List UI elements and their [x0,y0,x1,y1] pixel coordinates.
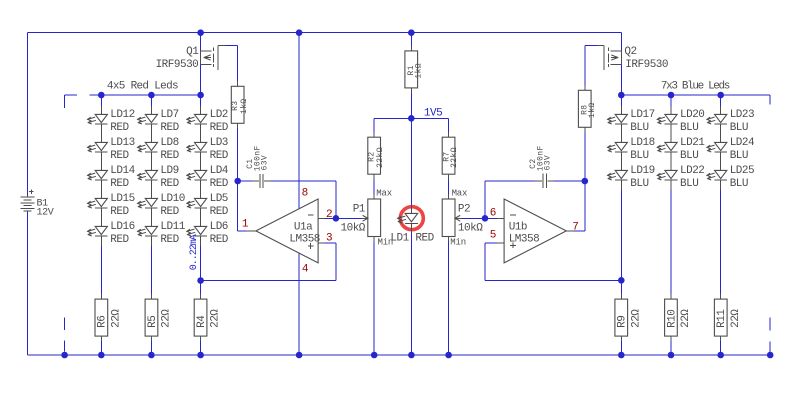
junction blue sense node R9 top [618,277,625,284]
svg-text:1kΩ: 1kΩ [240,98,249,114]
LED LD20 BLU [657,106,704,134]
svg-text:63V: 63V [260,155,269,171]
svg-text:BLU: BLU [680,178,698,190]
svg-text:RED: RED [160,178,179,190]
transistor Q2 IRF9530 (P-MOSFET, mirrored) [597,46,668,72]
junction ground bus at P1 [371,352,378,359]
capacitor C2 100nF 63V [529,145,554,188]
LED LD5 RED [187,190,229,218]
svg-text:BLU: BLU [630,150,648,162]
svg-text:RED: RED [210,150,229,162]
LED LD10 RED [138,190,185,218]
svg-text:6: 6 [490,208,496,220]
junction ground bus at pin4 [296,352,303,359]
op-amp U1b LM358 [497,199,574,263]
wire U1a pin1 output lead [238,230,246,232]
wire blue LED array top bus [621,94,770,96]
LED LD12 RED [88,106,135,134]
wire red column 2 segments [150,95,152,106]
wire red column 3 segments (0..22mA) [200,95,202,106]
svg-text:5: 5 [490,230,496,242]
resistor R8 1kΩ [578,90,596,127]
svg-text:Q1: Q1 [186,46,199,58]
junction red sense node R4 top [197,277,204,284]
svg-text:BLU: BLU [730,122,748,134]
dashed phantom column left (4th red column) top stub [65,94,77,96]
svg-text:LD1: LD1 [390,232,409,244]
junction ground bus at phantom left [61,352,68,359]
junction pin2/P1 wiper [333,215,340,222]
svg-text:R5: R5 [147,316,159,328]
resistor R7 22kΩ [442,137,459,174]
svg-text:1kΩ: 1kΩ [414,63,423,79]
wire top +12V rail [28,32,622,34]
svg-text:LD22: LD22 [680,165,704,177]
LED LD18 BLU [608,134,655,162]
junction red bus col2 [148,92,155,99]
svg-text:LD7: LD7 [160,109,178,121]
junction blue bus col3 [717,92,724,99]
wire bottom ground bus [28,354,771,356]
svg-text:R11: R11 [716,309,728,328]
junction top rail at Q1 [197,29,204,36]
LED LD25 BLU [707,162,754,190]
svg-text:LD19: LD19 [630,165,654,177]
svg-text:RED: RED [110,150,129,162]
LED LD6 RED [187,218,229,246]
svg-text:22Ω: 22Ω [680,309,692,328]
LED LD23 BLU [707,106,754,134]
svg-text:LD3: LD3 [210,137,228,149]
junction pin6/P2 wiper [482,215,489,222]
wire blue column 3 segments [720,95,722,106]
svg-text:RED: RED [160,150,179,162]
wire junction up to C2 left [484,181,486,218]
wire R3 bottom to node A [237,128,239,181]
LED LD14 RED [88,162,136,190]
svg-text:LD16: LD16 [110,221,134,233]
wire R2 top drop [373,118,375,132]
resistor R1 1kΩ [405,51,423,88]
wire U1a pin3 to sense node [325,242,336,244]
wire Q2 source from rail [620,33,622,51]
wire 1V5 node horizontal [374,117,448,119]
svg-text:10kΩ: 10kΩ [458,223,483,235]
svg-text:P1: P1 [353,204,366,216]
wire R8 top to Q2 gate [584,46,586,86]
dashed phantom column left bottom dashes [64,318,66,331]
svg-text:7x3 Blue Leds: 7x3 Blue Leds [661,80,730,92]
svg-text:RED: RED [110,206,129,218]
svg-text:BLU: BLU [630,178,648,190]
battery B1 12V [21,189,54,218]
svg-text:R3: R3 [231,100,240,110]
svg-text:RED: RED [160,122,179,134]
wire LD1 cathode to ground bus [410,232,412,355]
transistor Q1 IRF9530 (P-MOSFET) [156,46,226,72]
svg-text:0..22mA: 0..22mA [189,234,200,270]
resistor R5 22Ω [145,299,172,336]
wire red LED array top bus [90,94,201,96]
svg-text:P2: P2 [458,204,470,216]
junction ground bus at R11 [717,352,724,359]
svg-text:RED: RED [110,178,129,190]
wire U1b pin7 lead [574,230,585,232]
junction blue bus col2 [668,92,675,99]
svg-text:LD9: LD9 [160,165,178,177]
wire blue column 2 segments [670,95,672,106]
svg-text:LD25: LD25 [730,165,754,177]
svg-text:4x5 Red Leds: 4x5 Red Leds [107,80,178,92]
svg-text:7: 7 [572,222,578,234]
svg-text:LD24: LD24 [730,137,755,149]
svg-text:RED: RED [110,234,129,246]
svg-text:BLU: BLU [680,122,698,134]
wire node A down to U1a output pin1 [237,181,239,231]
svg-text:1: 1 [242,219,249,231]
wire R1 bottom to 1V5 node [410,93,412,118]
LED LD11 RED [138,218,186,246]
LED LD13 RED [88,134,135,162]
svg-text:LD12: LD12 [110,109,134,121]
wire P1 bottom to ground bus [373,242,375,356]
svg-text:Min: Min [450,238,466,248]
svg-text:R4: R4 [196,315,208,328]
wire blue bus right stub down [769,95,771,105]
wire Q2 drain to blue bus [620,64,622,95]
svg-text:RED: RED [415,232,434,244]
wire LD1 anode from 1V5 node [410,118,412,205]
wire R1 top from rail [410,33,412,46]
svg-text:Q2: Q2 [624,46,636,58]
op-amp U1a LM358 (mirrored) [246,199,325,263]
svg-text:LM358: LM358 [509,233,540,245]
svg-text:IRF9530: IRF9530 [156,59,199,71]
junction red bus col1 [98,92,105,99]
junction ground bus at R5 [148,352,155,359]
svg-text:U1b: U1b [509,221,527,233]
resistor R11 22Ω [714,299,741,336]
svg-text:8: 8 [302,188,308,200]
wire P2 wiper to pin6 junction [461,217,485,219]
junction ground bus at R9 [618,352,625,359]
svg-text:12V: 12V [37,208,54,219]
resistor R2 22kΩ [368,137,385,174]
LED LD1 RED with red highlight ring [390,205,434,244]
wire left rail upper (battery +) [27,33,29,197]
junction ground bus at LD1 [408,352,415,359]
svg-text:LD14: LD14 [110,165,135,177]
wire feedback down to pin2 junction [335,181,337,218]
junction ground bus at phantom right [767,352,774,359]
junction ground bus at R10 [668,352,675,359]
junction 1V5 node [408,115,415,122]
capacitor C1 100nF 63V [246,145,271,188]
wire node B down to U1b pin7 output [584,181,586,231]
junction top rail at R1 [408,29,415,36]
svg-text:LD10: LD10 [160,193,184,205]
wire U1a pin8 from rail [298,33,300,209]
svg-text:63V: 63V [543,155,552,171]
svg-text:4: 4 [302,263,309,275]
resistor lead stubs [100,294,102,299]
svg-text:R6: R6 [97,316,109,328]
junction blue bus col1 Q2 drain [618,92,625,99]
resistor R10 22Ω [665,299,693,336]
svg-text:22Ω: 22Ω [630,309,642,328]
svg-text:LD23: LD23 [730,109,754,121]
svg-text:LD11: LD11 [160,221,185,233]
wire Q1 drain to red bus [200,64,202,95]
svg-text:BLU: BLU [680,150,698,162]
svg-text:3: 3 [326,233,332,245]
svg-text:U1a: U1a [294,221,313,233]
wire R2 bottom to P1 top [373,179,375,194]
resistor R4 22Ω [194,299,222,336]
svg-text:10kΩ: 10kΩ [341,223,366,235]
svg-text:22kΩ: 22kΩ [376,147,385,168]
svg-text:1kΩ: 1kΩ [588,102,597,118]
wire C1 right to feedback corner [271,180,336,182]
LED LD21 BLU [657,134,705,162]
svg-text:22Ω: 22Ω [210,309,222,328]
svg-text:RED: RED [210,206,229,218]
svg-text:RED: RED [110,122,129,134]
svg-text:LD20: LD20 [680,109,704,121]
potentiometer P1 10kΩ [341,188,394,247]
LED LD19 BLU [608,162,655,190]
wire red column 1 segments [100,95,102,106]
wire node B up to R8 bottom [584,132,586,181]
LED LD24 BLU [707,134,755,162]
LED LD17 BLU [608,106,655,134]
svg-text:LD18: LD18 [630,137,654,149]
svg-text:RED: RED [210,122,229,134]
svg-text:LD15: LD15 [110,193,134,205]
svg-text:LM358: LM358 [289,233,320,245]
svg-text:R10: R10 [666,310,678,328]
wire left rail lower (battery -) [27,212,29,356]
wire P2 bottom to ground bus [448,242,450,356]
wire U1b pin5 to sense node [485,242,497,244]
wire blue column 1 segments [620,95,622,106]
svg-text:Max: Max [452,188,468,198]
junction red bus col3 Q1 drain [197,92,204,99]
junction ground bus at R4 [197,352,204,359]
wire R7 bottom to P2 top [448,179,450,194]
svg-text:LD8: LD8 [160,137,178,149]
LED LD8 RED [138,134,180,162]
wire U1b pin6 lead to junction [485,217,497,219]
svg-text:Max: Max [376,188,392,198]
svg-text:2: 2 [326,209,332,221]
junction top rail at pin8 [296,29,303,36]
junction node B (C2/R8/pin7) [582,178,589,185]
wire node A to C1 left [238,180,252,182]
svg-text:22kΩ: 22kΩ [450,147,459,168]
resistor R6 22Ω [95,299,122,336]
svg-text:IRF9530: IRF9530 [625,59,668,71]
LED LD16 RED [88,218,135,246]
LED LD3 RED [187,134,229,162]
LED LD22 BLU [657,162,704,190]
resistor R9 22Ω [615,299,643,336]
wire 1V5 to R7 top drop [448,118,450,132]
junction ground bus at P2 [445,352,452,359]
wire C2 right to node B [554,180,585,182]
resistor R3 1kΩ [231,86,249,123]
LED LD4 RED [187,162,229,190]
LED LD15 RED [88,190,135,218]
svg-text:R9: R9 [617,316,629,328]
potentiometer P2 10kΩ [442,188,483,247]
LED LD7 RED [138,106,180,134]
svg-text:RED: RED [210,178,229,190]
svg-text:RED: RED [160,206,179,218]
svg-text:22Ω: 22Ω [730,309,742,328]
junction node A (R3/C1/pin1) [234,178,241,185]
svg-text:22Ω: 22Ω [161,309,173,328]
wire junction to P1 wiper [336,217,362,219]
svg-text:LD21: LD21 [680,137,705,149]
wire U1a pin2 to junction [325,217,336,219]
svg-text:RED: RED [160,234,179,246]
svg-text:LD6: LD6 [210,221,228,233]
svg-text:LD4: LD4 [210,165,229,177]
svg-text:BLU: BLU [730,150,748,162]
svg-text:1V5: 1V5 [424,108,442,120]
svg-text:LD13: LD13 [110,137,134,149]
svg-text:RED: RED [210,234,229,246]
wire Q1 gate to R3 [226,45,238,47]
svg-text:22Ω: 22Ω [110,309,122,328]
LED LD9 RED [138,162,180,190]
svg-text:BLU: BLU [630,122,648,134]
svg-text:LD17: LD17 [630,109,654,121]
wire Q1 source from rail [200,33,202,51]
junction ground bus at R6 [98,352,105,359]
svg-text:BLU: BLU [730,178,748,190]
svg-text:LD2: LD2 [210,109,228,121]
wire U1a pin4 to ground bus [298,253,300,355]
dashed phantom column right bottom dashes [769,317,771,330]
svg-text:LD5: LD5 [210,193,228,205]
LED LD2 RED [187,106,229,134]
